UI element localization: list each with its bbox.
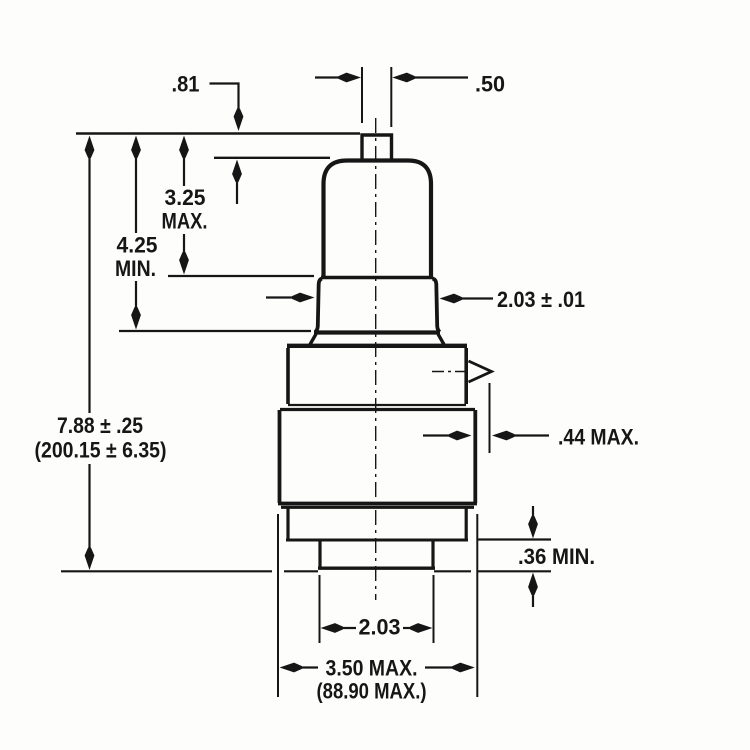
svg-text:2.03: 2.03 — [359, 615, 401, 640]
dimension 7.88 text — [35, 413, 167, 463]
mid base section — [286, 508, 468, 540]
dimension .50 left arrow — [315, 76, 342, 78]
dimension 2.03 base left arrow — [339, 627, 356, 629]
dimension .81 up arrow below — [236, 178, 238, 204]
dimension 3.50 MAX right arrow — [425, 666, 455, 668]
svg-text:3.25: 3.25 — [165, 185, 206, 210]
svg-text:.50: .50 — [475, 72, 505, 97]
seating plane reference line (top) — [76, 132, 360, 134]
dimension .36 MIN down arrow — [532, 506, 534, 520]
side exhaust tip triangle — [469, 361, 492, 382]
dimension 2.03 +-.01 text — [497, 287, 585, 312]
upper body cylinder top line — [287, 344, 467, 348]
dimension .81 text — [172, 72, 200, 97]
svg-text:MIN.: MIN. — [115, 256, 156, 281]
dimension 2.03 dia left arrow — [266, 296, 296, 298]
upper body cylinder sides — [288, 348, 466, 404]
dimension .44 MAX text — [558, 425, 639, 450]
dome-bottom extension line (3.25 ref) — [168, 275, 314, 277]
dimension .36 MIN text — [518, 544, 595, 569]
step lines between upper body and main cylinder — [280, 405, 475, 410]
dimension .36 MIN lower dim line — [434, 570, 551, 572]
svg-text:2.03 ± .01: 2.03 ± .01 — [497, 287, 585, 312]
dimension .50 right arrow — [404, 76, 468, 78]
tube dome envelope — [324, 161, 432, 278]
dimension 7.88 lower stem and down arrow — [88, 464, 90, 551]
dimension .50 text — [475, 72, 505, 97]
dimension 3.50 MAX extension lines — [277, 514, 279, 697]
dimension .36 MIN upper dim line — [477, 538, 551, 540]
dimension .36 MIN long extension line — [476, 514, 478, 697]
dimension .81 down arrow — [234, 109, 244, 132]
neck bottom thick line — [314, 330, 440, 334]
dome-top reference line — [214, 157, 330, 159]
svg-text:.44 MAX.: .44 MAX. — [558, 425, 639, 450]
dimension 3.25 MAX lower arrow — [183, 234, 185, 256]
dimension .81 leader — [210, 84, 239, 113]
svg-text:.81: .81 — [172, 72, 200, 97]
side exhaust tip centerline — [432, 371, 468, 373]
main cylinder bottom thick lines — [278, 504, 477, 508]
svg-text:(88.90 MAX.): (88.90 MAX.) — [317, 679, 427, 704]
svg-text:MAX.: MAX. — [162, 209, 208, 234]
dimension 2.03 base text — [359, 615, 401, 640]
neck-bottom extension line (4.25 ref) — [119, 330, 311, 332]
svg-text:3.50 MAX.: 3.50 MAX. — [326, 656, 418, 681]
dimension .36 MIN up arrow — [532, 591, 534, 607]
dome bottom line — [321, 276, 433, 279]
main cylinder sides — [280, 410, 476, 503]
dimension .44 MAX extension line — [489, 383, 491, 453]
center line (vertical dash-dot axis) — [375, 118, 377, 600]
dimension .44 MAX left arrow — [423, 434, 452, 436]
dimension 2.03 base extension lines — [320, 575, 434, 643]
baseline reference (bottom seating) — [61, 570, 318, 572]
base plug — [318, 541, 435, 568]
collar flange — [310, 334, 444, 345]
dimension .44 MAX right arrow — [511, 434, 549, 436]
dimension 4.25 MIN lower arrow — [135, 281, 137, 311]
dimension 3.50 MAX text — [317, 656, 427, 704]
svg-text:4.25: 4.25 — [117, 233, 158, 258]
dimension 4.25 MIN text — [115, 233, 158, 282]
tube top nipple — [362, 135, 392, 159]
dimension 3.50 MAX left arrow — [299, 666, 318, 668]
dimension 2.03 base right arrow — [403, 627, 414, 629]
dimension 3.25 MAX text — [162, 185, 208, 234]
dimension .50 extension lines — [362, 67, 391, 127]
dimension 3.25 MAX upper arrow — [183, 154, 185, 186]
svg-text:.36 MIN.: .36 MIN. — [518, 544, 595, 569]
neck section (2.03 dia) — [315, 279, 440, 333]
dimension 4.25 MIN upper arrow — [135, 154, 137, 233]
dimension 7.88 upper arrow and stem — [88, 154, 90, 413]
svg-text:7.88 ± .25: 7.88 ± .25 — [57, 413, 143, 438]
dimension 2.03 dia right arrow — [459, 297, 493, 299]
svg-text:(200.15 ± 6.35): (200.15 ± 6.35) — [35, 438, 167, 463]
